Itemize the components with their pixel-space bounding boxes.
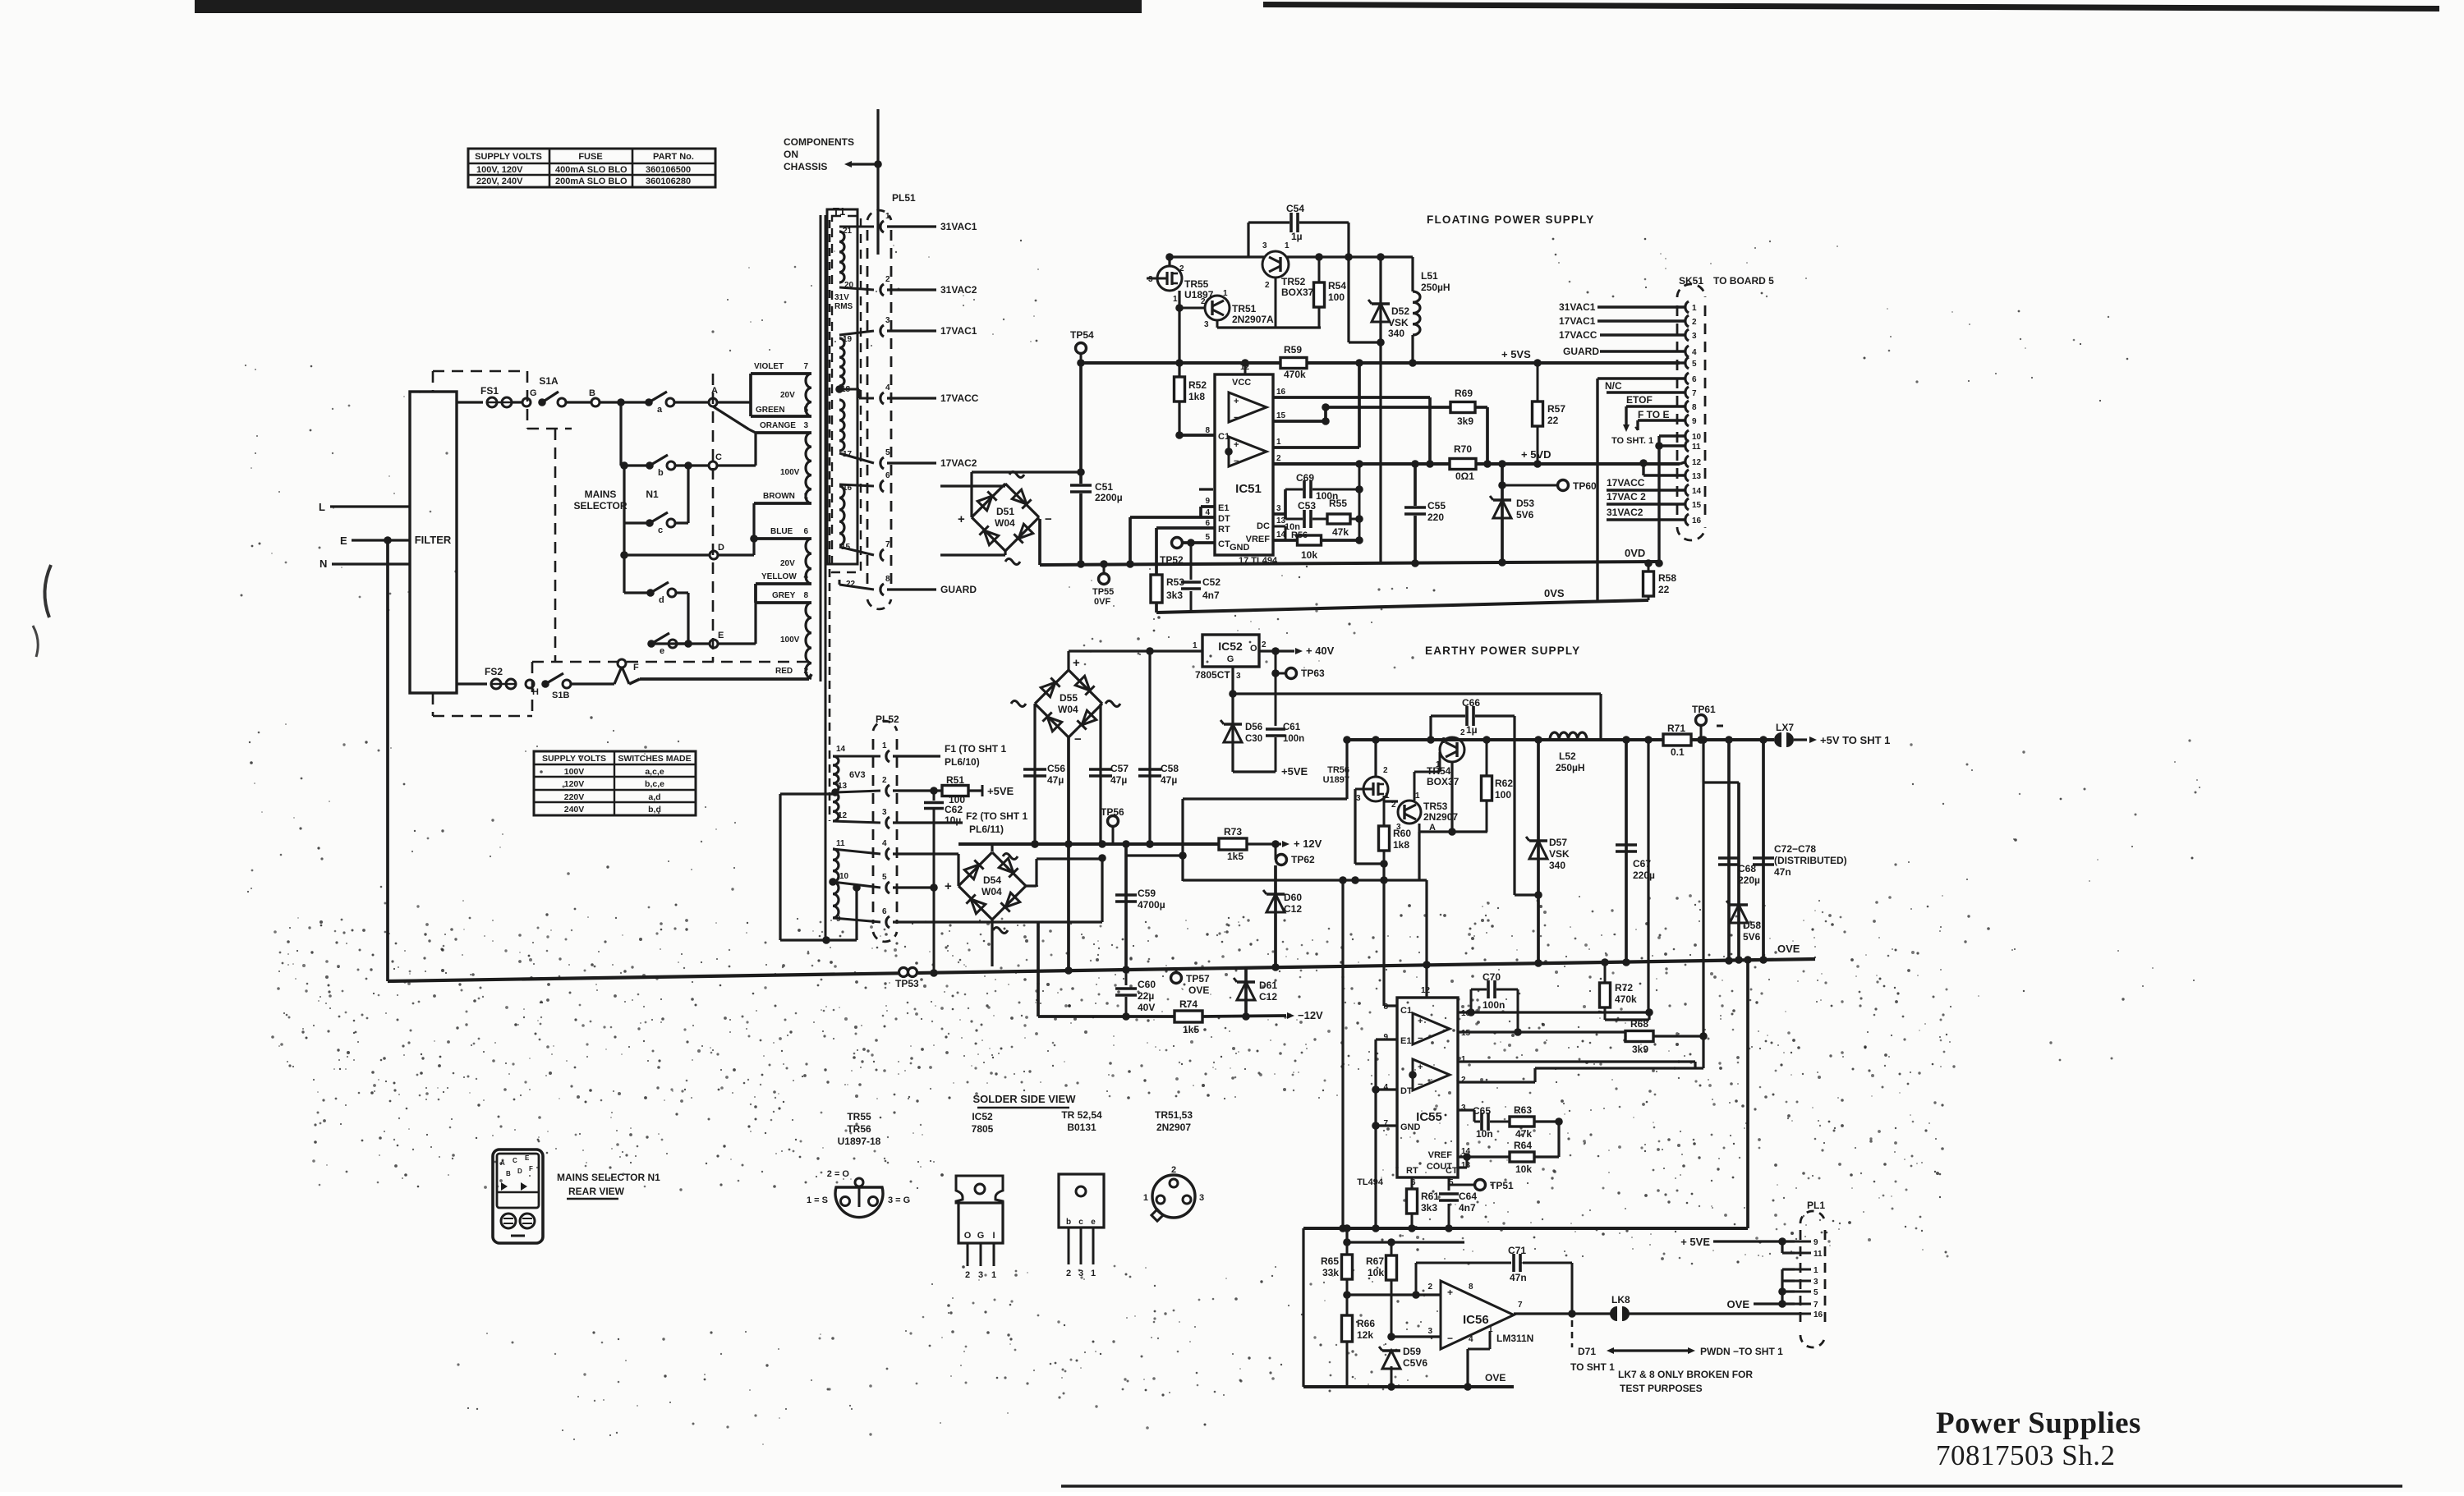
svg-text:2: 2 [1201,297,1206,306]
svg-text:100n: 100n [1283,734,1304,744]
svg-text:11: 11 [1814,1250,1823,1259]
svg-text:1: 1 [1091,1269,1096,1278]
svg-text:5V6: 5V6 [1743,931,1761,943]
switch c [646,519,654,527]
node G [522,398,531,406]
svg-text:GND: GND [1400,1122,1421,1132]
connector PL52 pin 1 [886,750,890,762]
svg-text:3: 3 [1814,1278,1818,1287]
svg-text:R63: R63 [1514,1104,1532,1116]
wire IC55 pin2 row [1458,1081,1535,1083]
wire TR51 bottom row [1216,319,1219,328]
transformer T1 secondary dashed box [832,216,861,572]
svg-text:220: 220 [1427,512,1444,523]
wire +5VD rail [1415,462,1450,466]
wire IC51 DT row [1130,516,1215,519]
svg-text:1: 1 [803,492,808,501]
svg-text:19: 19 [843,335,853,344]
wire tap20 to PL51 pin2 [839,287,874,290]
svg-text:R71: R71 [1667,723,1685,734]
op-amp IC51-B [1229,437,1266,466]
svg-text:COUT: COUT [1427,1162,1452,1172]
svg-text:100: 100 [1495,789,1511,801]
svg-text:3 = G: 3 = G [888,1195,910,1205]
capacitor C60 [1125,970,1128,985]
svg-text:+: + [1447,1287,1453,1298]
svg-text:7: 7 [885,540,890,549]
svg-text:REAR VIEW: REAR VIEW [568,1186,625,1197]
svg-text:C61: C61 [1283,723,1301,732]
svg-text:17VACC: 17VACC [1607,477,1645,489]
svg-text:+: + [1073,656,1080,670]
resistor R56 [1298,535,1322,545]
svg-text:PL52: PL52 [876,714,899,725]
svg-text:3k9: 3k9 [1457,415,1473,427]
ic IC52 (7805CT) [1202,635,1259,667]
switch a [645,398,653,406]
wire IC56 output [1514,1312,1611,1315]
svg-text:+5V TO SHT 1: +5V TO SHT 1 [1820,734,1890,746]
testpoint TP53 [899,968,908,977]
connector PL1 pin 7 [1795,1303,1811,1306]
svg-text:3: 3 [1236,672,1241,681]
wire R63 to corner [1534,1120,1559,1122]
svg-text:U1897: U1897 [1323,775,1349,785]
capacitor C51 [1079,363,1083,484]
switch b [646,461,654,470]
svg-text:R74: R74 [1179,998,1198,1010]
wire top row R65/R67 [1345,1228,1348,1242]
transistor TR51 (2N2907A) [1205,296,1230,320]
svg-text:R66: R66 [1357,1318,1375,1329]
svg-text:2: 2 [882,776,887,785]
wire TR51 base [1179,307,1206,310]
wire D-col to d [623,555,625,593]
svg-text:3: 3 [803,421,808,430]
svg-text:C: C [715,452,722,462]
svg-text:−: − [1418,1034,1423,1044]
svg-text:47n: 47n [1774,866,1791,878]
resistor R53 [1151,575,1162,603]
capacitor C64 [1448,1177,1450,1191]
wire F1 net [893,755,940,757]
winding 11-10 [833,849,839,882]
wire PL51 pin7 to bridge ac [940,553,1005,556]
svg-text:R58: R58 [1658,572,1676,584]
wire R56 to riser [1321,539,1359,542]
svg-text:R64: R64 [1514,1140,1532,1151]
svg-text:470k: 470k [1284,369,1306,380]
svg-text:G: G [977,1231,985,1241]
wire D51 bridge + to C51 top [970,472,972,517]
svg-text:IC52: IC52 [972,1111,993,1122]
svg-text:8: 8 [885,575,890,584]
wire 0VD rail [1040,562,1659,565]
wire feedback loop top [1183,797,1347,800]
svg-text:21: 21 [843,227,853,236]
capacitor C67 [1625,740,1628,962]
svg-text:400mA SLO BLO: 400mA SLO BLO [555,165,627,175]
connector SK51 pin 7 [1685,387,1689,398]
switch e [647,640,655,648]
fuse table [468,149,715,187]
wire IC55 pin15 row [1458,1030,1627,1033]
svg-text:ETOF: ETOF [1626,394,1653,406]
svg-text:+ 12V: + 12V [1294,837,1322,850]
svg-text:360106280: 360106280 [646,177,691,186]
scan bar top-right [1263,2,2439,11]
wire D54 bottom down [991,920,993,966]
switches made table [534,751,696,815]
svg-text:0.1: 0.1 [1671,746,1685,758]
resistor R69 [1326,406,1452,409]
svg-text:3: 3 [1441,737,1446,746]
wire IC52 out +40V [1259,649,1294,652]
svg-text:YELLOW: YELLOW [761,572,797,581]
svg-text:2: 2 [1692,318,1697,327]
svg-text:3: 3 [1276,504,1281,513]
svg-text:2: 2 [1391,801,1396,810]
svg-text:2: 2 [885,275,890,284]
svg-text:R54: R54 [1328,280,1346,291]
wire IC55 pin1 row [1458,1060,1695,1062]
wire FS1 to G [512,401,522,403]
svg-text:DC: DC [1257,521,1270,531]
wire R74 to -12V [1202,1016,1286,1016]
svg-text:C52: C52 [1202,576,1221,588]
svg-text:TL494: TL494 [1357,1177,1384,1187]
svg-text:C54: C54 [1286,203,1304,214]
resistor R65 [1342,1255,1353,1279]
wire A to winding box [717,401,751,403]
svg-text:70817503 Sh.2: 70817503 Sh.2 [1936,1439,2115,1471]
mains selector N1 rear view [493,1150,543,1243]
capacitor C57 [1089,768,1112,771]
svg-text:17VAC 2: 17VAC 2 [1607,491,1646,502]
wire earth to OVE rail [386,540,389,981]
svg-text:7: 7 [1814,1301,1818,1310]
svg-text:D51: D51 [996,506,1014,517]
wire IC51 pin15 row [1273,420,1326,423]
wire C59 row [1124,844,1128,970]
wire b-row to c [623,466,625,523]
svg-text:I: I [992,1231,995,1241]
svg-text:220µ: 220µ [1738,874,1760,886]
svg-text:IC52: IC52 [1218,640,1243,653]
svg-text:GREEN: GREEN [756,406,785,415]
wire ORANGE row [756,431,811,434]
svg-text:LM311N: LM311N [1496,1333,1533,1344]
svg-text:2: 2 [1427,1283,1432,1292]
svg-text:−: − [1234,457,1239,466]
svg-text:OVE: OVE [1727,1298,1750,1310]
svg-text:2: 2 [1265,281,1270,290]
primary coil 100V [806,433,811,503]
wire chassis stub [876,109,879,255]
svg-text:9: 9 [1205,497,1210,506]
svg-text:1: 1 [1223,289,1228,298]
svg-text:5: 5 [1692,360,1697,369]
svg-text:E1: E1 [1218,503,1229,513]
svg-text:100n: 100n [1483,999,1505,1011]
svg-text:5V6: 5V6 [1516,509,1534,521]
wire FTOE to pin9 [1638,419,1685,421]
svg-text:R60: R60 [1393,828,1411,839]
svg-text:−: − [1447,1333,1453,1344]
svg-text:VCC: VCC [1232,378,1251,388]
wire pin6 to D54 bottom [893,920,1102,923]
transformer lower winding loop [780,792,834,795]
wire SK51 pin6 to 0VS [1597,377,1685,379]
connector SK51 pin 16 [1685,514,1689,525]
wire D to blue row [718,553,754,556]
svg-text:B: B [506,1170,511,1177]
wire feedback row y1072 [1183,879,1427,881]
svg-text:D60: D60 [1284,892,1302,903]
svg-text:PL6/11): PL6/11) [969,824,1004,835]
wire YELLOW row [756,582,811,585]
resistor R73 [1219,838,1247,850]
svg-text:OVE: OVE [1485,1372,1506,1384]
resistor R57 [1537,363,1539,402]
svg-text:VSK: VSK [1388,317,1409,328]
svg-text:GND: GND [1230,543,1250,553]
wire 17VACC [887,397,936,399]
svg-text:3k9: 3k9 [1632,1044,1648,1055]
svg-text:0VF: 0VF [1094,597,1110,607]
svg-text:TP57: TP57 [1186,973,1210,984]
svg-text:1k5: 1k5 [1227,851,1243,862]
wire R60 col to IC55 pin8 [1382,864,1385,1006]
svg-text:+: + [945,879,952,893]
wire IC51 pin1 row [1273,446,1359,449]
testpoint TP60 [1502,484,1557,487]
svg-text:TP62: TP62 [1291,854,1315,865]
link LK8 [1611,1307,1617,1320]
svg-text:PL1: PL1 [1807,1200,1825,1211]
svg-text:R56: R56 [1291,530,1308,540]
svg-text:E: E [718,631,724,640]
svg-text:ON: ON [784,149,798,160]
svg-text:BROWN: BROWN [763,492,795,501]
svg-text:S1A: S1A [539,375,559,387]
svg-text:7805: 7805 [972,1123,994,1135]
connector PL51 pin 7 [880,549,884,561]
wire TR52 bottom [1275,278,1277,328]
svg-text:LK8: LK8 [1611,1294,1630,1306]
svg-text:TP51: TP51 [1490,1180,1514,1191]
svg-text:33k: 33k [1322,1267,1339,1278]
resistor R55 [1327,514,1350,524]
svg-text:G: G [1227,654,1234,664]
svg-text:10µ: 10µ [945,815,961,826]
svg-text:D52: D52 [1391,305,1409,317]
wire TR56 gate loop [1355,788,1364,791]
svg-text:−: − [1074,732,1082,746]
svg-text:16: 16 [1692,516,1702,525]
svg-text:TP53: TP53 [895,978,919,989]
svg-text:0VS: 0VS [1544,587,1565,599]
connector PL51 pin 5 [880,457,884,469]
connector PL1 pin 16 [1795,1313,1811,1315]
svg-text:R65: R65 [1321,1255,1339,1267]
svg-text:R61: R61 [1421,1191,1439,1202]
svg-text:C69: C69 [1296,472,1314,484]
connector PL1 pin 1 [1795,1269,1811,1271]
connector PL52 pin 2 [886,785,890,796]
svg-text:10: 10 [1692,433,1702,442]
svg-text:3: 3 [885,316,890,325]
transistor TR54 (BOX37) [1440,737,1464,762]
resistor R62 [1486,740,1488,777]
svg-text:12: 12 [1421,986,1431,995]
wire IC55 pin8 row [1384,1004,1397,1007]
svg-text:47k: 47k [1515,1128,1532,1140]
wire C57 col [1099,704,1101,844]
testpoint TP63 [1275,651,1277,673]
capacitor C69 [1285,489,1303,491]
svg-text:3k3: 3k3 [1421,1202,1437,1214]
svg-text:R72: R72 [1615,982,1633,994]
wire TR56 source to TR53 [1383,796,1386,801]
svg-text:3: 3 [1262,241,1267,250]
svg-text:31VAC2: 31VAC2 [940,284,977,296]
svg-text:SOLDER SIDE VIEW: SOLDER SIDE VIEW [973,1093,1077,1105]
svg-text:6: 6 [803,527,808,536]
connector SK51 pin 11 [1685,440,1689,452]
svg-text:PART No.: PART No. [653,152,694,162]
svg-text:TO BOARD 5: TO BOARD 5 [1713,275,1774,287]
primary coil 100V (lower) [806,603,811,678]
svg-text:4: 4 [1692,348,1697,357]
wire tap9 to PL52 pin6 [833,918,880,922]
svg-text:VSK: VSK [1549,848,1570,860]
svg-text:1k8: 1k8 [1188,391,1205,402]
svg-text:A: A [500,1159,505,1167]
wire feedback loop left [1181,799,1184,881]
svg-text:C62: C62 [945,804,963,815]
svg-text:b,d: b,d [648,805,661,815]
wire TR54 emitter down [1450,762,1453,832]
wire -12V row [1038,1015,1175,1018]
svg-text:GUARD: GUARD [940,584,977,595]
svg-text:TP61: TP61 [1692,704,1716,715]
resistor R52 [1175,377,1185,402]
testpoint TP51 [1449,1184,1474,1186]
wire ETOF to pin8 [1626,405,1685,407]
svg-text:1: 1 [1143,1193,1148,1203]
svg-text:L52: L52 [1559,750,1576,762]
svg-text:R51: R51 [946,774,964,786]
wire TR54 base row [1439,752,1441,772]
svg-text:3: 3 [882,808,887,817]
svg-text:D: D [718,543,724,553]
svg-text:TO SHT. 1: TO SHT. 1 [1611,436,1653,446]
wire switch a to A [674,401,709,403]
testpoint TP56 [1108,816,1119,827]
wire LK8 to PL1 pin16 [1628,1312,1800,1315]
svg-text:1: 1 [1276,438,1281,447]
diode D59 (C5V6) [1382,1351,1400,1369]
wire tap14 to PL52 pin1 [833,755,880,758]
wire 0VS rail [1156,600,1648,613]
svg-text:4: 4 [885,383,890,392]
svg-text:C55: C55 [1427,500,1446,512]
svg-text:15: 15 [1692,501,1702,510]
connector PL51 pin 3 [880,325,884,337]
svg-text:D71: D71 [1578,1346,1596,1357]
svg-text:470k: 470k [1615,994,1637,1005]
switch S1B [541,680,549,688]
op-amp IC51-A [1229,392,1266,422]
svg-text:3: 3 [1356,794,1361,803]
svg-text:C5V6: C5V6 [1403,1357,1427,1369]
svg-text:R70: R70 [1454,443,1472,455]
svg-text:C30: C30 [1245,734,1262,744]
svg-text:W04: W04 [1058,704,1078,715]
resistor R71 [1663,734,1691,746]
wire F to red row [629,679,640,684]
wire D54 - to C59 col [1026,884,1037,887]
wire tap19 to PL51 pin3 [839,331,874,335]
connector PL1 pin 11 [1795,1252,1811,1255]
node B [591,398,600,406]
dashed frame N1 selector [554,429,557,662]
testpoint TP57 OVE [1171,973,1182,984]
wire loop V1640 [1345,740,1348,799]
svg-text:360106500: 360106500 [646,165,691,175]
winding 16-15 [839,486,844,545]
wire tap12 to PL52 pin3 [833,821,880,823]
svg-text:a,d: a,d [648,792,660,802]
connector PL51 pin 6 [880,480,884,492]
wire pin3 F2 net [893,821,963,824]
package BD131 [1059,1174,1104,1228]
connector PL51 dashed outline [867,230,869,591]
svg-text:C12: C12 [1259,991,1277,1003]
wire B to switch a [600,401,649,403]
wire +5VS rail [1081,361,1281,365]
svg-text:1: 1 [1692,304,1697,313]
wire IC52 pin3 down [1231,667,1234,772]
svg-text:ORANGE: ORANGE [760,421,796,430]
svg-text:TR52: TR52 [1281,276,1306,287]
svg-text:LX7: LX7 [1776,722,1794,733]
svg-text:2: 2 [1262,640,1266,649]
svg-text:3: 3 [1204,320,1209,329]
svg-text:D61: D61 [1259,980,1277,991]
svg-text:S1B: S1B [552,691,569,700]
svg-text:47µ: 47µ [1047,774,1064,786]
testpoint TP52 [1172,538,1183,548]
svg-text:R73: R73 [1224,826,1242,837]
svg-text:DT: DT [1400,1086,1413,1096]
svg-text:N: N [319,558,327,570]
svg-text:C64: C64 [1459,1191,1477,1202]
wire tap16 to PL51 pin6 [839,484,874,486]
wire e to E [677,642,710,645]
svg-text:100V: 100V [780,636,800,645]
resistor R60 [1383,801,1386,827]
svg-text:+: + [958,512,965,526]
connector PL52 pin 6 [886,916,890,928]
bridge rectifier D51 [972,484,1005,517]
svg-text:EARTHY POWER SUPPLY: EARTHY POWER SUPPLY [1425,645,1580,657]
svg-text:2: 2 [803,667,808,676]
connector SK51 pin 5 [1685,357,1689,369]
wire GUARD [887,588,936,590]
diode D57 (VSK340) [1537,740,1540,963]
